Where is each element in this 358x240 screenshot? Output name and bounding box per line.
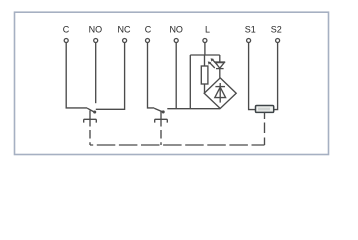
svg-text:S2: S2 (271, 25, 282, 35)
svg-text:C: C (63, 25, 70, 35)
svg-text:C: C (145, 25, 152, 35)
svg-text:S1: S1 (245, 25, 256, 35)
svg-text:NO: NO (169, 25, 183, 35)
svg-text:NO: NO (89, 25, 103, 35)
svg-text:L: L (205, 25, 210, 35)
svg-text:NC: NC (118, 25, 131, 35)
